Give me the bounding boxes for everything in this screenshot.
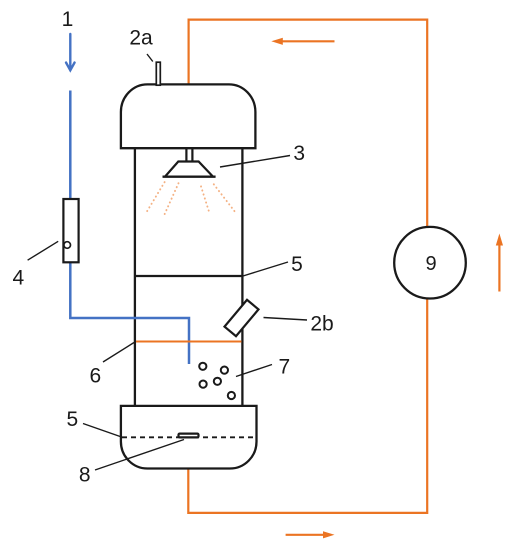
svg-text:2a: 2a — [129, 27, 153, 50]
leader line to 5 lower — [83, 424, 123, 438]
svg-text:5: 5 — [291, 253, 303, 276]
gas inlet pipe 2a — [156, 62, 160, 85]
svg-text:7: 7 — [278, 356, 290, 379]
flow arrow top (left-pointing) — [271, 38, 334, 45]
leader line to 6 — [103, 343, 134, 363]
bottom vessel (bowl) — [121, 406, 257, 469]
svg-text:5: 5 — [67, 408, 79, 431]
leader line to 4 — [28, 241, 59, 260]
svg-text:2b: 2b — [310, 312, 333, 335]
flow meter float — [64, 242, 71, 249]
vessel head (dome) — [121, 84, 256, 148]
flow arrow right side (up-pointing) — [496, 234, 503, 292]
leader line to 2a — [147, 54, 153, 62]
feed arrow 1 (blue, down-pointing) — [66, 34, 75, 70]
leader line to 3 — [220, 156, 290, 168]
tray line 5 (upper) — [135, 275, 243, 277]
svg-text:9: 9 — [425, 253, 436, 275]
flow arrow bottom (right-pointing) — [286, 531, 335, 538]
leader line to 8 — [95, 440, 184, 471]
svg-text:8: 8 — [79, 463, 91, 486]
column wall left — [134, 148, 136, 406]
liquid level line 6 (orange) — [136, 341, 241, 343]
svg-text:4: 4 — [13, 266, 25, 289]
svg-text:6: 6 — [89, 365, 101, 388]
flow meter 4 — [63, 199, 78, 262]
leader line to 5 upper — [243, 262, 288, 276]
sparger 8 — [179, 434, 199, 438]
wire feed line (blue) — [70, 91, 189, 365]
svg-text:1: 1 — [62, 8, 74, 31]
leader line to 7 — [236, 365, 272, 377]
spray pattern (dotted) — [145, 182, 235, 214]
wire recirculation loop (orange) — [188, 20, 427, 513]
spray nozzle 3 — [163, 148, 216, 176]
bubbles 7 — [199, 363, 235, 399]
gas outlet port 2b (tilted) — [225, 300, 259, 336]
column wall right — [241, 148, 243, 406]
svg-text:3: 3 — [293, 142, 305, 165]
liquid level dashed line (bottom vessel) — [122, 436, 255, 438]
leader line to 2b — [264, 318, 308, 321]
pump 9 — [394, 227, 466, 299]
